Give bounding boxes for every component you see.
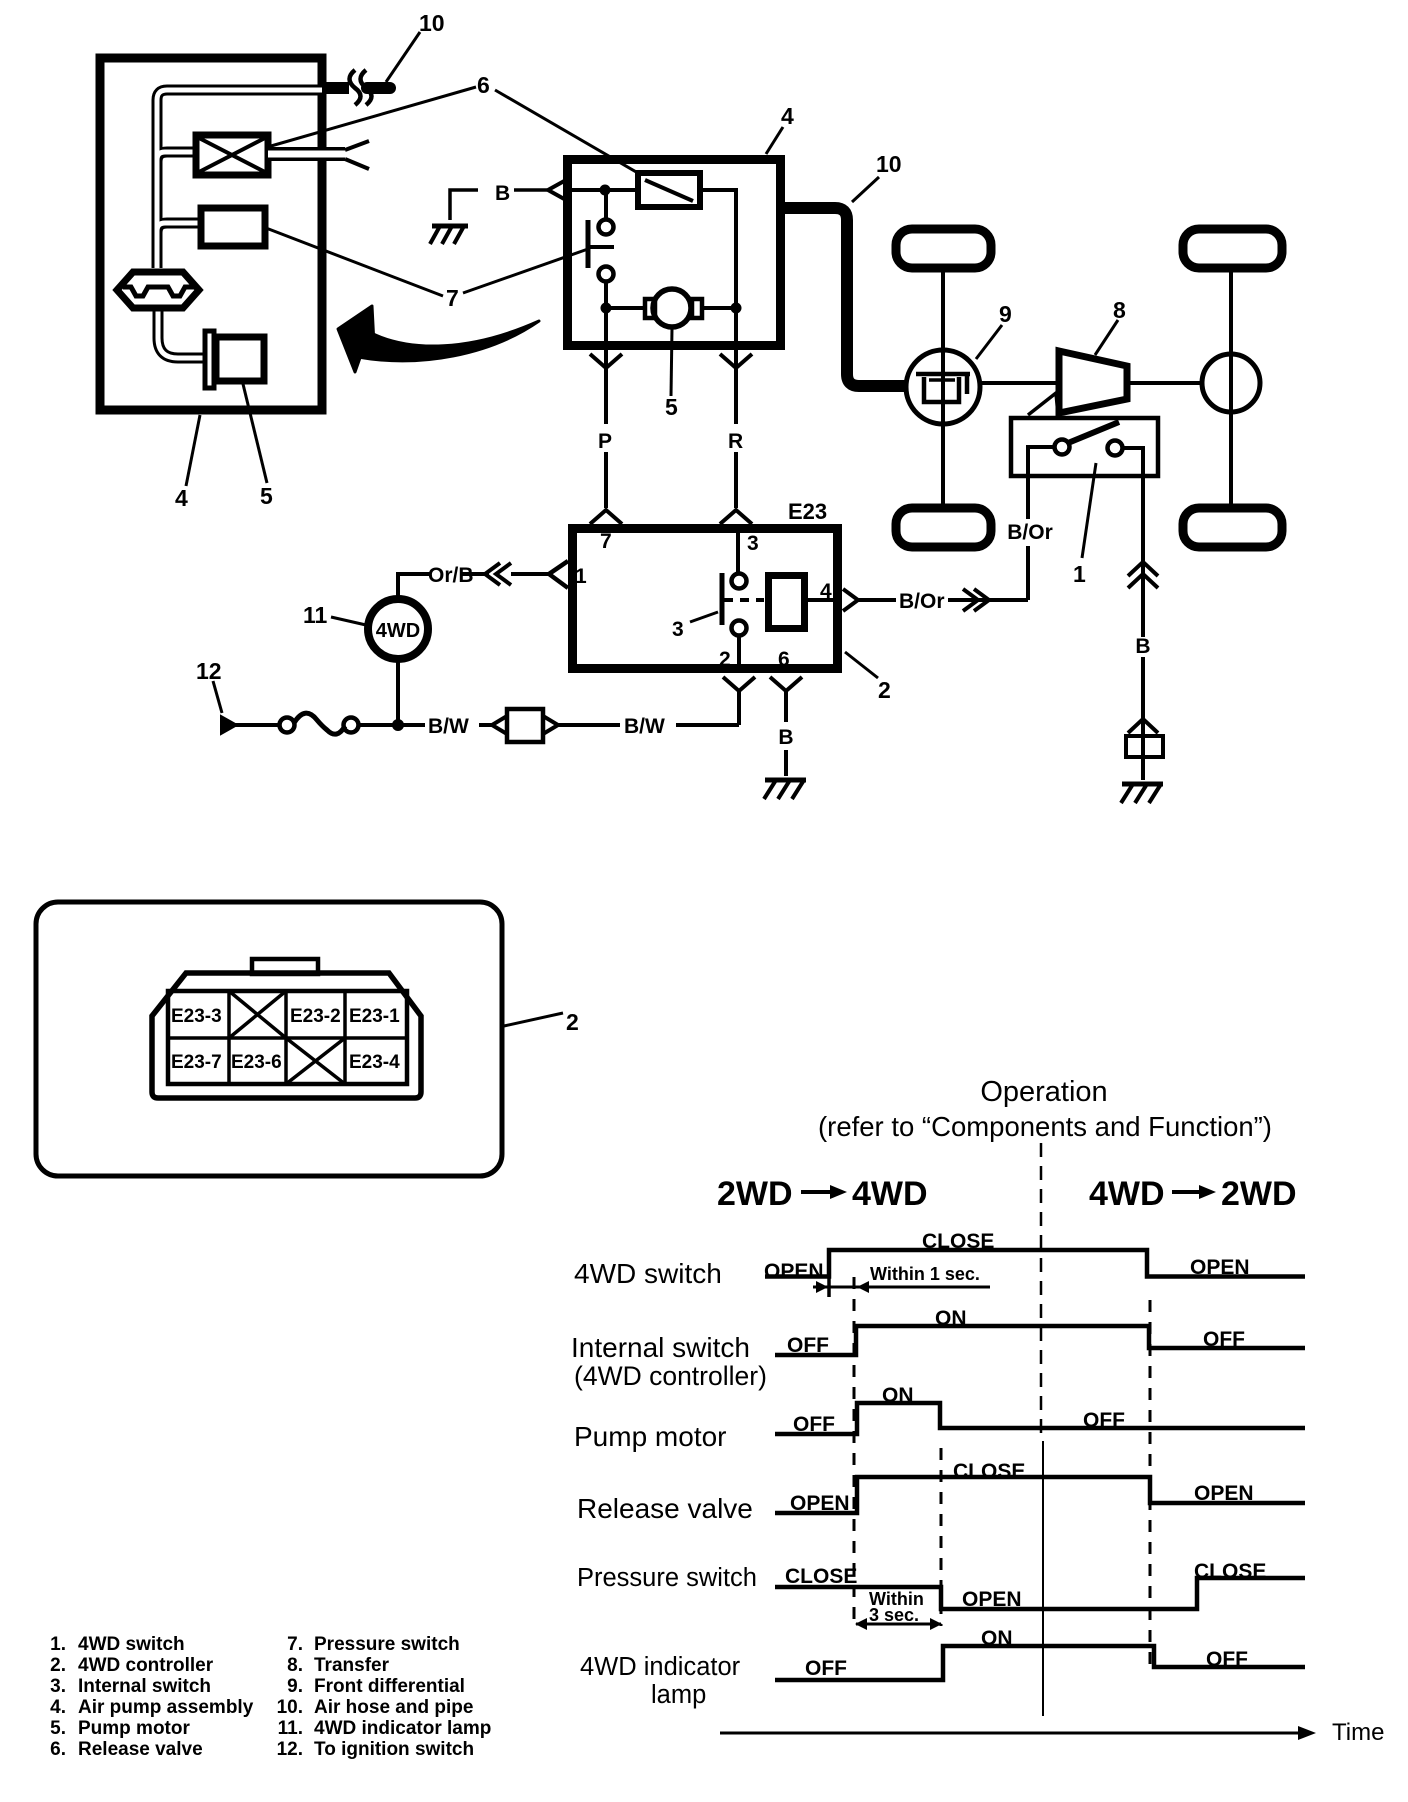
air hose 10 from box to front differential — [785, 208, 908, 386]
waveform pressure switch — [775, 1578, 1305, 1609]
pressure switch top contact — [599, 220, 614, 235]
svg-text:7: 7 — [446, 285, 459, 311]
wire from right contact down to ground — [1122, 448, 1143, 780]
svg-text:OPEN: OPEN — [1190, 1256, 1250, 1279]
propeller shaft transfer-rear — [1127, 381, 1203, 385]
svg-text:2: 2 — [719, 648, 731, 671]
air pump assembly schematic box (item 4) — [568, 160, 781, 346]
wire motor left — [606, 306, 645, 310]
pin2 wire from bottom contact down — [737, 636, 741, 673]
fuse left terminal — [280, 718, 295, 733]
svg-text:2: 2 — [566, 1009, 579, 1035]
leader 10 — [386, 32, 420, 82]
svg-text:10: 10 — [419, 10, 445, 36]
pump motor (item 5) flange — [205, 331, 214, 388]
svg-text:CLOSE: CLOSE — [922, 1230, 994, 1253]
svg-text:4WD indicator: 4WD indicator — [580, 1653, 741, 1681]
svg-text:4WD switch: 4WD switch — [78, 1634, 185, 1655]
rear axle shaft — [1229, 272, 1233, 504]
leader 1 — [1082, 463, 1096, 558]
pin6 wire down (B) — [784, 691, 788, 776]
svg-text:OFF: OFF — [1203, 1328, 1245, 1351]
svg-text:8: 8 — [1113, 297, 1126, 323]
front left tire — [896, 229, 991, 268]
front differential (item 9) circle — [906, 350, 980, 424]
node junction B/W — [392, 719, 404, 731]
connector view panel rounded box — [36, 902, 502, 1176]
svg-text:Internal switch: Internal switch — [571, 1332, 750, 1363]
svg-text:Or/B: Or/B — [428, 564, 474, 587]
connector arrow B at box edge — [548, 180, 566, 200]
leader 4 — [186, 415, 200, 486]
svg-text:9.: 9. — [287, 1676, 303, 1697]
wire to E23 pin2 riser — [676, 723, 739, 727]
svg-text:E23: E23 — [788, 499, 827, 524]
svg-text:4WD controller: 4WD controller — [78, 1655, 214, 1676]
big curved arrow pointing to assembly — [358, 321, 539, 361]
pump motor (item 5) circle — [653, 289, 691, 327]
svg-text:E23-3: E23-3 — [171, 1006, 222, 1027]
svg-text:5: 5 — [260, 483, 273, 509]
svg-text:6.: 6. — [50, 1739, 66, 1760]
node junction P rail — [601, 303, 612, 314]
svg-text:B/Or: B/Or — [1007, 521, 1053, 544]
GROUP: legend — [50, 1634, 491, 1760]
rear right tire upper — [1183, 229, 1282, 268]
pin4 arrow connector — [843, 589, 858, 611]
svg-text:4WD switch: 4WD switch — [574, 1258, 722, 1289]
svg-text:3: 3 — [747, 532, 759, 555]
front left lower tire — [896, 508, 991, 547]
leader 8 — [1095, 320, 1118, 355]
dashed timeline 1 — [853, 1277, 856, 1626]
ground (chassis) — [432, 224, 468, 229]
svg-text:4WD indicator lamp: 4WD indicator lamp — [314, 1718, 491, 1739]
svg-text:Release valve: Release valve — [78, 1739, 203, 1760]
hose break mark — [350, 70, 361, 105]
air pump assembly outline (item 4) — [100, 58, 322, 410]
leader 5 — [243, 384, 267, 483]
GROUP: air pump assembly detail (top-left) — [100, 10, 638, 511]
wire stub to B — [514, 188, 547, 192]
svg-text:OPEN: OPEN — [962, 1588, 1022, 1611]
time axis — [720, 1732, 1300, 1735]
svg-text:6: 6 — [778, 648, 790, 671]
svg-text:B: B — [1135, 635, 1150, 658]
svg-text:B/W: B/W — [624, 715, 665, 738]
rear right tire lower — [1183, 508, 1282, 547]
switch contact left — [1055, 440, 1070, 455]
GROUP: connector face panel — [36, 902, 579, 1176]
double chevron on Or/B wire — [485, 563, 511, 585]
leader 3 — [690, 612, 718, 622]
dashed link switch to relay coil — [724, 598, 764, 602]
connector chevron below box (P) — [590, 354, 622, 368]
filter element squiggle — [123, 287, 194, 296]
svg-text:4: 4 — [781, 103, 794, 129]
svg-text:8.: 8. — [287, 1655, 303, 1676]
svg-text:11.: 11. — [278, 1718, 303, 1739]
wire lamp to B/W junction — [396, 661, 400, 725]
pin2 wire down to B/W — [737, 691, 741, 725]
svg-text:Front differential: Front differential — [314, 1676, 465, 1697]
svg-text:Air hose and pipe: Air hose and pipe — [314, 1697, 473, 1718]
air hose and pipe 10: thick hose exiting box top right — [322, 82, 349, 94]
wire to second B/W label — [479, 723, 620, 727]
differential inner detail — [916, 372, 970, 377]
pressure switch (item 7) small box — [201, 208, 265, 246]
centre dashed divider — [1040, 1143, 1043, 1441]
svg-text:CLOSE: CLOSE — [953, 1460, 1025, 1483]
svg-text:E23-4: E23-4 — [349, 1052, 400, 1073]
relay coil box — [769, 576, 805, 629]
connector body outline — [152, 973, 421, 1098]
svg-text:1.: 1. — [50, 1634, 66, 1655]
leader 2 — [845, 652, 878, 678]
svg-text:10.: 10. — [277, 1697, 303, 1718]
svg-text:E23-1: E23-1 — [349, 1006, 400, 1027]
connector key tab — [252, 959, 318, 974]
svg-text:E23-6: E23-6 — [231, 1052, 282, 1073]
leader 7 right branch — [463, 249, 588, 293]
svg-text:7: 7 — [600, 530, 612, 553]
wire B/Or from pin4 to switch — [858, 598, 1028, 602]
GROUP: lamp and ignition — [196, 563, 739, 742]
leader 12 — [213, 681, 222, 713]
svg-text:(refer to “Components and Func: (refer to “Components and Function”) — [818, 1111, 1272, 1142]
svg-text:Transfer: Transfer — [314, 1655, 390, 1676]
svg-text:11: 11 — [303, 602, 328, 628]
svg-text:Pump motor: Pump motor — [574, 1421, 727, 1452]
4WD switch (item 1) box — [1011, 418, 1158, 476]
svg-text:OPEN: OPEN — [1194, 1482, 1254, 1505]
svg-text:Air pump assembly: Air pump assembly — [78, 1697, 254, 1718]
svg-text:lamp: lamp — [651, 1681, 706, 1709]
svg-text:ON: ON — [882, 1384, 914, 1407]
svg-text:5.: 5. — [50, 1718, 66, 1739]
GROUP: driveline wheels transfer — [896, 229, 1282, 803]
leader 4 — [766, 127, 783, 154]
svg-text:B: B — [778, 726, 793, 749]
svg-text:1: 1 — [575, 565, 587, 588]
svg-text:OFF: OFF — [787, 1334, 829, 1357]
waveform 4WD switch — [765, 1250, 1305, 1277]
svg-text:2WD: 2WD — [717, 1175, 793, 1213]
connector chevron below box (R) — [720, 354, 752, 368]
propeller shaft front-transfer — [980, 381, 1057, 385]
svg-text:4WD: 4WD — [1089, 1175, 1165, 1213]
svg-text:Time: Time — [1332, 1719, 1384, 1746]
svg-text:B/Or: B/Or — [899, 590, 945, 613]
svg-text:7.: 7. — [287, 1634, 303, 1655]
release valve (item 6) crossed box — [196, 135, 268, 175]
wire motor right — [702, 306, 736, 310]
svg-text:Operation: Operation — [980, 1076, 1107, 1108]
ground (chassis) right — [1122, 782, 1163, 787]
svg-text:4WD: 4WD — [852, 1175, 928, 1213]
svg-text:B/W: B/W — [428, 715, 469, 738]
waveform indicator lamp — [775, 1646, 1305, 1680]
svg-text:Release valve: Release valve — [577, 1493, 753, 1524]
pressure switch (item 7) plunger bar — [586, 220, 591, 268]
fuse right terminal — [344, 718, 359, 733]
GROUP: controller E23 — [549, 499, 1028, 799]
transfer (item 8) cone — [1059, 351, 1127, 413]
waveform internal switch — [775, 1326, 1305, 1355]
svg-text:OFF: OFF — [1083, 1409, 1125, 1432]
svg-text:10: 10 — [876, 151, 902, 177]
R wire down to E23 pin3 — [734, 350, 738, 508]
ground (chassis) under pin6 — [765, 778, 806, 783]
air pipes: tube network inside assembly — [157, 90, 322, 358]
svg-text:E23-2: E23-2 — [290, 1006, 341, 1027]
inline connector chevrons on right wire — [1128, 562, 1158, 588]
blocked cavity X (row2) — [286, 1038, 345, 1084]
front axle shaft — [941, 272, 945, 504]
leader 6 right branch — [495, 90, 638, 173]
svg-text:Pump motor: Pump motor — [78, 1718, 190, 1739]
svg-text:12.: 12. — [277, 1739, 303, 1760]
svg-text:To ignition switch: To ignition switch — [314, 1739, 474, 1760]
svg-text:E23-7: E23-7 — [171, 1052, 222, 1073]
svg-text:1: 1 — [1073, 561, 1086, 587]
svg-text:2.: 2. — [50, 1655, 66, 1676]
terminal grid — [168, 991, 407, 1084]
svg-text:(4WD controller): (4WD controller) — [574, 1361, 767, 1391]
svg-text:Pressure switch: Pressure switch — [577, 1564, 757, 1592]
pressure switch bottom contact — [599, 267, 614, 282]
leader 6 left branch — [271, 87, 476, 146]
svg-text:ON: ON — [981, 1627, 1013, 1650]
pin4 wire from coil to edge — [807, 598, 842, 602]
waveform release valve — [775, 1477, 1305, 1513]
svg-text:3: 3 — [672, 618, 684, 641]
svg-text:OFF: OFF — [1206, 1648, 1248, 1671]
leader 9 — [976, 325, 1002, 359]
svg-text:B: B — [495, 182, 510, 205]
wire bottom contact to P rail — [604, 282, 608, 346]
switch contact right — [1108, 441, 1123, 456]
leader 5 — [671, 328, 672, 396]
svg-text:2: 2 — [878, 677, 891, 703]
svg-text:4WD: 4WD — [376, 620, 420, 642]
motor brush right — [692, 299, 702, 318]
svg-text:P: P — [598, 430, 612, 453]
connector chevron above E23 (pin7) — [590, 510, 622, 524]
svg-text:12: 12 — [196, 658, 222, 684]
svg-text:OPEN: OPEN — [764, 1260, 824, 1283]
svg-text:Pressure switch: Pressure switch — [314, 1634, 460, 1655]
waveform pump motor — [775, 1403, 1305, 1434]
fuse element — [294, 713, 345, 734]
wire junction to B/W connector — [398, 723, 425, 727]
connector chevron above joint — [1128, 719, 1158, 733]
svg-text:Internal switch: Internal switch — [78, 1676, 211, 1697]
node junction on B wire — [600, 185, 611, 196]
release valve solenoid (item 6) slash box — [638, 173, 700, 207]
air filter hexagon — [117, 272, 199, 308]
vent pipe from release valve to atmosphere — [268, 147, 345, 161]
svg-text:R: R — [728, 430, 743, 453]
blocked cavity X (row1) — [229, 991, 286, 1038]
vent flare marks — [345, 141, 369, 150]
internal switch contacts — [732, 574, 747, 589]
wire from left contact down (B/Or) — [1028, 447, 1054, 600]
leader 11 — [331, 617, 366, 625]
svg-text:OPEN: OPEN — [790, 1492, 850, 1515]
svg-text:3 sec.: 3 sec. — [869, 1605, 919, 1625]
dashed timeline 2 — [940, 1448, 943, 1626]
pin6 chevron below box — [770, 677, 802, 691]
svg-text:OFF: OFF — [793, 1413, 835, 1436]
svg-text:6: 6 — [477, 72, 490, 98]
node junction R rail — [731, 303, 742, 314]
4WD indicator lamp (item 11) — [368, 599, 428, 659]
rear differential circle — [1202, 354, 1260, 412]
internal switch (item 3) bar — [720, 573, 725, 625]
wire terminal to fuse — [235, 723, 279, 727]
motor brush left — [645, 299, 655, 318]
leader 7 left branch — [266, 228, 443, 296]
switch lever — [1068, 422, 1119, 443]
wire Or/B from pin1 to lamp — [398, 574, 548, 596]
GROUP: timing chart — [571, 1076, 1384, 1746]
svg-text:OFF: OFF — [805, 1657, 847, 1680]
svg-text:Within 1 sec.: Within 1 sec. — [870, 1264, 980, 1284]
svg-text:5: 5 — [665, 394, 678, 420]
svg-text:CLOSE: CLOSE — [1194, 1560, 1266, 1583]
P wire down to E23 pin7 — [604, 350, 608, 508]
ground stub wire — [450, 190, 478, 220]
solenoid diagonal — [645, 180, 693, 201]
svg-text:4.: 4. — [50, 1697, 66, 1718]
callout flag on switch box — [1028, 393, 1058, 415]
double chevron on B/Or wire — [963, 589, 989, 611]
pin3 wire inside from top to contact — [736, 524, 740, 573]
svg-text:9: 9 — [999, 301, 1012, 327]
inline connector: left chevron, box, right chevron — [492, 716, 507, 734]
leader 2 — [504, 1013, 563, 1026]
grid dividers — [168, 991, 407, 1084]
wire B feed inside box — [566, 188, 636, 192]
GROUP: air pump schematic box (top-middle) — [430, 103, 908, 524]
svg-text:ON: ON — [935, 1307, 967, 1330]
svg-text:CLOSE: CLOSE — [785, 1565, 857, 1588]
joint connector box — [1126, 736, 1163, 757]
4WD controller (item 2) box E23 — [573, 529, 838, 669]
svg-text:3.: 3. — [50, 1676, 66, 1697]
pin2 chevron below box — [723, 677, 755, 691]
connector chevron above E23 (pin3) — [720, 510, 752, 524]
leader 10 — [852, 177, 879, 202]
svg-text:4: 4 — [175, 485, 188, 511]
dashed timeline 3 — [1149, 1300, 1152, 1664]
svg-text:2WD: 2WD — [1221, 1175, 1297, 1213]
pin1 female connector at edge — [549, 561, 568, 588]
pump motor body — [216, 337, 264, 381]
wire from solenoid to right rail — [700, 190, 736, 346]
ignition feed terminal triangle — [221, 716, 237, 734]
wire top contact to B wire — [604, 190, 608, 219]
wire fuse to junction — [359, 723, 398, 727]
